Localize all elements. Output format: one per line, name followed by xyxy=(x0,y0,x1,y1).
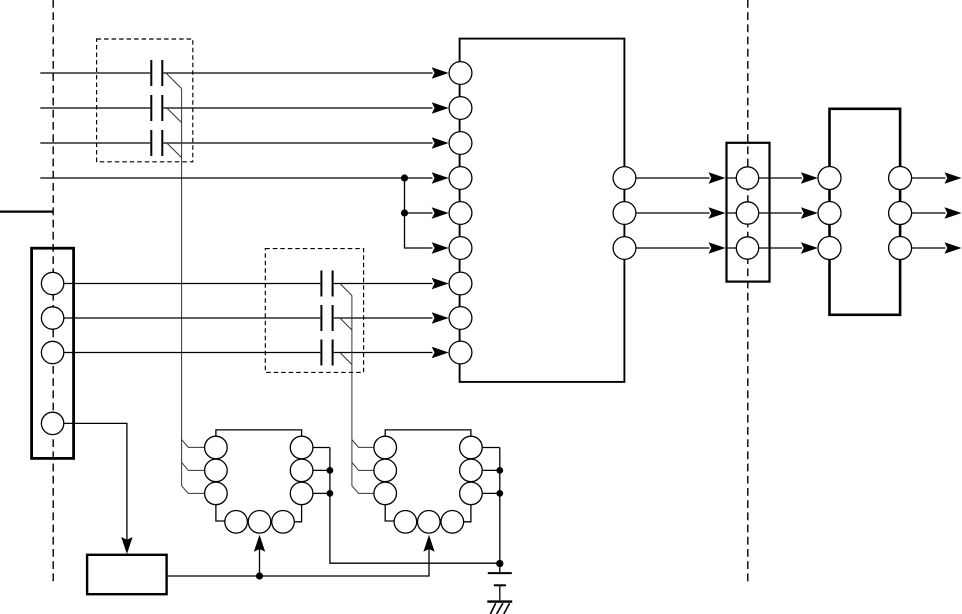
arrow into scanner pin 5 xyxy=(432,207,449,218)
arrow into scanner pin 1 xyxy=(432,67,449,78)
switch S2 bottom contact 3 xyxy=(441,511,464,534)
arrow into relay box 1 xyxy=(801,172,818,183)
control box A1 xyxy=(87,555,167,594)
shield tap hook line7 xyxy=(341,284,352,295)
wire scanner out 3 xyxy=(636,247,737,249)
switch S2 hook 2 xyxy=(352,462,374,470)
switch S2 left contact 3 xyxy=(374,482,397,505)
arrow wiper S2 xyxy=(423,535,434,552)
switch S2 left contact 2 xyxy=(374,459,397,482)
relay box U4 left circle 1 xyxy=(818,167,841,190)
switch S1 bottom contact 2 xyxy=(248,511,271,534)
feedthrough U3 circle 2 xyxy=(736,202,758,224)
node junction wiper feed xyxy=(256,572,263,579)
arrow output 1 xyxy=(945,172,962,183)
switch S1 right contact 2 xyxy=(290,459,313,482)
feedthrough U3 circle 1 xyxy=(736,167,758,189)
capacitor C2 plates xyxy=(150,95,152,121)
switch S2 right contact 1 xyxy=(460,436,483,459)
switch S1 left contact 1 xyxy=(205,436,228,459)
node S1 bus junction 1 xyxy=(327,467,334,474)
feedthrough U3 circle 3 xyxy=(736,237,758,259)
wire feedthrough out 1 xyxy=(759,177,802,179)
relay box U4 right circle 3 xyxy=(889,237,912,260)
node junction on line 4 xyxy=(401,174,408,181)
node S2 bus junction 2 xyxy=(496,490,503,497)
relay box U4 left circle 3 xyxy=(818,237,841,260)
switch S1 bottom contact 3 xyxy=(272,511,295,534)
terminal TB1 circle 4 xyxy=(41,412,63,434)
node S1 bus junction 2 xyxy=(327,490,334,497)
wire feedthrough out 2 xyxy=(759,212,802,214)
arrow output 3 xyxy=(945,242,962,253)
scanner U1 pin circle 5 xyxy=(449,202,472,225)
switch S1 bottom-left connector xyxy=(216,505,225,521)
arrow output 2 xyxy=(945,207,962,218)
switch S1 stub 2 xyxy=(313,469,330,471)
switch S2 bottom-left connector xyxy=(385,505,394,521)
switch S1 stub 1 xyxy=(313,447,330,449)
wire TB1-4 to control box xyxy=(64,423,127,548)
wire input line 3 xyxy=(40,142,432,144)
wire sense line 9 xyxy=(64,352,433,354)
scanner U1 pin circle 1 xyxy=(449,62,472,85)
switch S2 bus wire xyxy=(499,448,501,564)
wire output 3 xyxy=(911,247,946,249)
terminal TB1 circle 3 xyxy=(41,341,63,363)
switch S2 top wire xyxy=(385,430,471,437)
switch S1 right contact 1 xyxy=(290,436,313,459)
switch S2 bottom-right connector xyxy=(464,505,471,522)
wire sense line 7 xyxy=(64,283,433,285)
shield tap wire to switch S2 xyxy=(351,296,353,486)
arrow into feedthrough 1 xyxy=(709,172,726,183)
switch S1 bottom contact 1 xyxy=(225,511,248,534)
scanner U1 pin circle 4 xyxy=(449,167,472,190)
switch S1 left contact 2 xyxy=(205,459,228,482)
terminal TB1 circle 1 xyxy=(41,272,63,294)
node ground junction xyxy=(496,560,503,567)
switch S1 hook 3 xyxy=(182,486,205,494)
switch S1 left contact 3 xyxy=(205,482,228,505)
wire feedthrough out 3 xyxy=(759,247,802,249)
switch S2 right contact 3 xyxy=(460,482,483,505)
arrow wiper S1 xyxy=(254,535,265,552)
wire output 1 xyxy=(911,177,946,179)
wire scanner out 1 xyxy=(636,177,737,179)
switch S2 stub 2 xyxy=(482,469,500,471)
switch S1 stub 3 xyxy=(313,492,330,494)
shield tap hook line1 xyxy=(167,74,182,89)
switch S1 hook 1 xyxy=(182,440,205,448)
shield tap hook line2 xyxy=(167,109,181,123)
wire control box to switch wipers xyxy=(167,542,429,576)
capacitor C4 plates xyxy=(320,271,322,297)
scanner U1 pin circle 7 xyxy=(449,272,472,295)
capacitor C3 plates xyxy=(150,130,152,156)
shield tap hook line3 xyxy=(167,144,181,158)
switch S1 bottom-right connector xyxy=(294,505,301,522)
wire input line 2 xyxy=(40,107,432,109)
switch S2 bottom contact 2 xyxy=(418,511,441,534)
arrow into relay box 3 xyxy=(801,242,818,253)
arrow into scanner pin 4 xyxy=(432,172,449,183)
wire wiper S1 xyxy=(259,542,261,576)
scanner U1 output circle 2 xyxy=(613,202,636,225)
switch S2 stub 3 xyxy=(482,492,500,494)
shield tap wire to switch S1 xyxy=(181,89,183,486)
terminal TB1 circle 2 xyxy=(41,307,63,329)
scanner U1 output circle 1 xyxy=(613,167,636,190)
shield dashed box (top filter) xyxy=(97,39,193,162)
arrow into scanner pin 6 xyxy=(432,242,449,253)
node S2 bus junction 1 xyxy=(496,467,503,474)
switch S2 left contact 1 xyxy=(374,436,397,459)
feedthrough terminal box U3 xyxy=(727,143,770,282)
arrow into feedthrough 3 xyxy=(709,242,726,253)
capacitor C6 plates xyxy=(320,340,322,366)
wire branch to pin 5 xyxy=(405,212,433,214)
big scanner box U1 xyxy=(460,39,625,382)
scanner U1 pin circle 3 xyxy=(449,132,472,155)
arrow into scanner pin 3 xyxy=(432,137,449,148)
arrow down into control box xyxy=(121,537,132,554)
capacitor C7 to chassis xyxy=(499,564,501,573)
scanner U1 pin circle 6 xyxy=(449,237,472,260)
wire input line 4 xyxy=(40,177,432,179)
node junction branch to pin 5 xyxy=(401,209,408,216)
switch S1 top wire xyxy=(216,430,302,437)
scanner U1 pin circle 9 xyxy=(449,341,472,364)
scanner U1 pin circle 8 xyxy=(449,307,472,330)
switch S1 bus wire xyxy=(330,448,500,564)
arrow into relay box 2 xyxy=(801,207,818,218)
switch S2 right contact 2 xyxy=(460,459,483,482)
arrow into scanner pin 8 xyxy=(432,312,449,323)
switch S2 hook 1 xyxy=(352,440,374,448)
shield tap hook line8 xyxy=(341,319,352,330)
switch S1 hook 2 xyxy=(182,462,205,470)
relay box U4 right circle 1 xyxy=(889,167,912,190)
right chassis guard dashed line xyxy=(747,0,749,583)
chassis ground xyxy=(487,600,512,602)
arrow into feedthrough 2 xyxy=(709,207,726,218)
wire output 2 xyxy=(911,212,946,214)
capacitor C1 plates xyxy=(150,60,152,86)
switch S2 stub 1 xyxy=(482,447,500,449)
input terminal strip TB1 xyxy=(32,248,74,458)
wire branch from line 4 xyxy=(405,178,433,248)
arrow into scanner pin 2 xyxy=(432,102,449,113)
arrow into scanner pin 9 xyxy=(432,347,449,358)
shield dashed box (mid filter) xyxy=(265,249,363,373)
scanner U1 pin circle 2 xyxy=(449,97,472,120)
relay box U4 right circle 2 xyxy=(889,202,912,225)
switch S2 hook 3 xyxy=(352,486,374,494)
left chassis guard dashed line xyxy=(52,0,54,585)
arrow into scanner pin 7 xyxy=(432,278,449,289)
guard bus stub xyxy=(0,211,54,213)
switch S1 right contact 3 xyxy=(290,482,313,505)
wire scanner out 2 xyxy=(636,212,737,214)
relay box U4 left circle 2 xyxy=(818,202,841,225)
switch S2 bottom contact 1 xyxy=(394,511,417,534)
wire sense line 8 xyxy=(64,317,433,319)
wire input line 1 xyxy=(40,72,432,74)
relay output box U4 xyxy=(830,109,901,315)
capacitor C5 plates xyxy=(320,305,322,331)
scanner U1 output circle 3 xyxy=(613,237,636,260)
shield tap hook line9 xyxy=(341,353,352,364)
